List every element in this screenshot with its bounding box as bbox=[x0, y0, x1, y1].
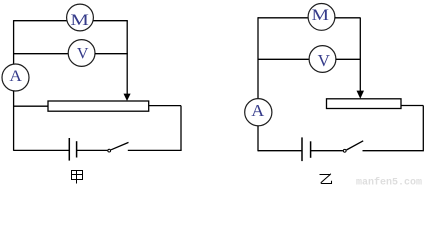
voltmeter V2 bbox=[309, 46, 336, 73]
svg-text:A: A bbox=[9, 68, 22, 85]
wire voltmeter V1 branch left bbox=[14, 53, 69, 55]
slider arrowhead of rheostat R1 bbox=[124, 94, 131, 101]
wire right vertical down bbox=[180, 106, 182, 151]
battery B2 short plate bbox=[310, 141, 312, 158]
wire battery B1 to switch S1 bbox=[77, 149, 108, 151]
ammeter A2 bbox=[245, 99, 272, 126]
svg-text:V: V bbox=[77, 46, 89, 63]
wire left vertical upper (top corner to ammeter A2) bbox=[257, 17, 259, 99]
wire slider feed vertical (node to arrow) bbox=[359, 18, 361, 92]
battery B1 short plate bbox=[76, 141, 78, 157]
label yi (Chinese char) bbox=[320, 174, 332, 184]
svg-text:manfen5.com: manfen5.com bbox=[356, 177, 422, 186]
wire right vertical down bbox=[422, 106, 424, 151]
wire left vertical upper (top corner to ammeter A1) bbox=[13, 20, 15, 64]
wire battery B2 to switch S2 bbox=[311, 150, 343, 152]
switch S1 blade bbox=[111, 142, 129, 149]
switch S2 blade bbox=[346, 141, 363, 150]
slider arrowhead of rheostat R2 bbox=[357, 91, 365, 99]
wire rheostat R1 right lead bbox=[149, 105, 181, 107]
wire motor M1 right to slider node bbox=[93, 20, 128, 22]
battery B1 long plate bbox=[68, 138, 70, 161]
wire top-left horizontal (to motor M2) bbox=[258, 17, 308, 19]
motor M1 bbox=[67, 4, 94, 31]
wire bottom left to battery B1 bbox=[14, 149, 70, 151]
switch S2 pivot circle bbox=[343, 149, 346, 152]
wire slider feed vertical (node to arrow) bbox=[126, 21, 128, 95]
wire motor M2 right to slider node bbox=[335, 17, 361, 19]
wire rheostat R1 left lead to left vertical bbox=[14, 105, 48, 107]
wire top-left horizontal (to motor M1) bbox=[14, 20, 68, 22]
voltmeter V1 bbox=[68, 40, 95, 67]
svg-text:V: V bbox=[318, 51, 331, 70]
svg-text:A: A bbox=[251, 101, 265, 120]
label jia (Chinese char) bbox=[72, 171, 83, 184]
wire rheostat R2 right lead bbox=[401, 105, 423, 107]
wire left vertical lower (ammeter A2 to bottom corner) bbox=[257, 126, 259, 152]
svg-text:M: M bbox=[70, 12, 89, 29]
wire switch S2 to bottom right corner bbox=[363, 150, 424, 152]
svg-text:M: M bbox=[312, 7, 330, 24]
wire voltmeter V2 right to slider node bbox=[336, 58, 361, 60]
wire voltmeter V2 branch left bbox=[258, 58, 309, 60]
wire switch S1 to bottom right corner bbox=[128, 149, 182, 151]
wire voltmeter V1 right to slider node bbox=[95, 53, 128, 55]
battery B2 long plate bbox=[301, 137, 303, 161]
rheostat R1 body bbox=[48, 101, 149, 111]
ammeter A1 bbox=[2, 64, 29, 91]
wire bottom left to battery B2 bbox=[258, 150, 302, 152]
motor M2 bbox=[308, 4, 335, 31]
switch S1 pivot circle bbox=[108, 149, 111, 152]
wire left vertical lower (ammeter A1 to bottom corner) bbox=[13, 91, 15, 151]
rheostat R2 body bbox=[327, 99, 402, 109]
